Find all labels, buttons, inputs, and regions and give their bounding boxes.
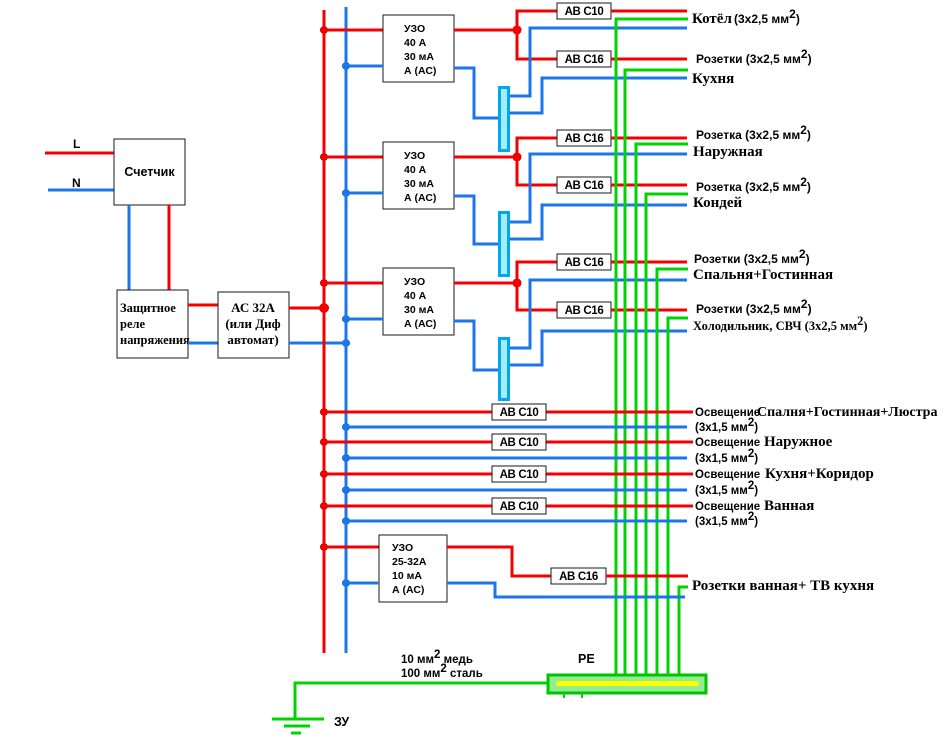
neutral splitter bar group 3 bbox=[500, 339, 509, 400]
svg-text:РЕ: РЕ bbox=[578, 652, 595, 666]
breaker АВ С10 lighting 1 bbox=[492, 404, 546, 420]
wire splitter 2 output A bbox=[510, 154, 687, 222]
wire lighting circuit 1 neutral bbox=[346, 426, 687, 429]
neutral splitter bar group 2 bbox=[500, 213, 509, 276]
wire RCD2 phase output bbox=[454, 156, 517, 159]
svg-text:Розетки (3х2,5 мм2): Розетки (3х2,5 мм2) bbox=[696, 47, 812, 66]
svg-text:10 мм2 медь: 10 мм2 медь bbox=[401, 649, 473, 666]
meter Счетчик bbox=[114, 139, 185, 205]
svg-text:АВ С10: АВ С10 bbox=[565, 6, 604, 18]
wire lighting circuit 4 phase bbox=[324, 505, 693, 508]
svg-text:(3х1,5 мм2): (3х1,5 мм2) bbox=[695, 448, 758, 465]
junction neutral bus tap group 1 bbox=[342, 62, 350, 70]
PE wire Кондей bbox=[646, 194, 688, 675]
svg-text:Кондей: Кондей bbox=[693, 195, 743, 211]
wire splitter 3 output A bbox=[510, 280, 687, 348]
svg-text:ЗУ: ЗУ bbox=[334, 715, 349, 729]
svg-text:УЗО: УЗО bbox=[404, 150, 425, 162]
breaker АВ С10 lighting 2 bbox=[492, 434, 546, 450]
svg-text:Счетчик: Счетчик bbox=[124, 165, 175, 179]
PE bar stub 1 bbox=[563, 693, 565, 698]
voltage relay Защитное реле напряжения bbox=[117, 290, 188, 358]
svg-text:АВ С10: АВ С10 bbox=[500, 501, 539, 513]
grounding conductor bbox=[295, 683, 548, 719]
PE wire Котёл bbox=[616, 19, 688, 675]
RCD УЗО 25-32А 10мА bbox=[379, 535, 447, 602]
wire lighting circuit 1 phase bbox=[324, 411, 693, 414]
svg-text:(3х1,5 мм2): (3х1,5 мм2) bbox=[695, 480, 758, 497]
junction phase bus tap group 1 bbox=[320, 26, 328, 34]
svg-text:АВ С16: АВ С16 bbox=[565, 305, 604, 317]
breaker АВ С10 lighting 4 bbox=[492, 498, 546, 514]
svg-text:Котёл: Котёл bbox=[692, 11, 732, 27]
junction RCD3 phase split bbox=[513, 279, 522, 288]
junction phase bus lighting 3 bbox=[320, 470, 328, 478]
svg-text:N: N bbox=[72, 176, 81, 190]
svg-text:(3х2,5 мм2): (3х2,5 мм2) bbox=[734, 7, 800, 26]
wire lighting circuit 4 neutral bbox=[346, 520, 687, 523]
neutral bus N vertical bbox=[345, 7, 348, 653]
svg-text:30 мА: 30 мА bbox=[404, 51, 434, 63]
PE wire Спальня+Гостинная bbox=[657, 269, 688, 675]
breaker АВ С16 group 2 lower bbox=[557, 177, 611, 193]
wire relay to AC32 neutral bbox=[188, 342, 218, 345]
junction RCD1 phase split bbox=[513, 26, 522, 35]
wire phase bus to RCD3 bbox=[324, 282, 383, 285]
wire phase bus to RCD1 bbox=[324, 29, 383, 32]
wire phase bus to RCD2 bbox=[324, 156, 383, 159]
wire splitter 3 output B bbox=[510, 331, 687, 365]
wire RCD3 phase output bbox=[454, 282, 517, 285]
svg-text:АВ С16: АВ С16 bbox=[559, 571, 598, 583]
svg-text:25-32А: 25-32А bbox=[392, 556, 427, 568]
breaker АВ С16 group 3 upper bbox=[557, 254, 611, 270]
svg-text:Кухня+Коридор: Кухня+Коридор bbox=[765, 466, 874, 482]
breaker АВ С10 group 1 upper bbox=[557, 3, 611, 19]
svg-text:30 мА: 30 мА bbox=[404, 178, 434, 190]
svg-text:30 мА: 30 мА bbox=[404, 304, 434, 316]
wire RCD1 phase output bbox=[454, 29, 517, 32]
svg-text:А (АС): А (АС) bbox=[404, 192, 436, 204]
svg-text:АВ С16: АВ С16 bbox=[565, 257, 604, 269]
wire upper breaker 3 output bbox=[611, 261, 687, 264]
PE wire Холодильник СВЧ bbox=[668, 318, 688, 675]
svg-text:Спальня+Гостинная: Спальня+Гостинная bbox=[693, 267, 833, 283]
svg-text:Розетки (3х2,5 мм2): Розетки (3х2,5 мм2) bbox=[696, 297, 812, 316]
junction neutral bus lighting 4 bbox=[342, 517, 350, 525]
wire neutral bus to RCD3 bbox=[346, 318, 383, 321]
svg-text:АВ С16: АВ С16 bbox=[565, 180, 604, 192]
neutral splitter bar group 1 bbox=[500, 88, 509, 151]
junction AC32 neutral bus bbox=[342, 339, 350, 347]
junction neutral bus tap group 3 bbox=[342, 315, 350, 323]
svg-text:АВ С10: АВ С10 bbox=[500, 407, 539, 419]
wire RCD2 neutral output to splitter bbox=[454, 196, 498, 244]
svg-text:АВ С10: АВ С10 bbox=[500, 469, 539, 481]
svg-text:Кухня: Кухня bbox=[692, 71, 734, 87]
PE bar stub 2 bbox=[581, 693, 583, 698]
svg-text:УЗО: УЗО bbox=[404, 23, 425, 35]
junction phase bus lighting 4 bbox=[320, 502, 328, 510]
svg-text:реле: реле bbox=[120, 317, 146, 331]
junction neutral bus tap group 2 bbox=[342, 189, 350, 197]
junction phase bus tap group 3 bbox=[320, 279, 328, 287]
RCD УЗО 40А 30мА group 1 bbox=[383, 15, 454, 82]
wire neutral bus to RCD2 bbox=[346, 192, 383, 195]
svg-text:40 А: 40 А bbox=[404, 164, 427, 176]
wire splitter 2 output B bbox=[510, 205, 687, 239]
svg-text:Наружная: Наружная bbox=[693, 144, 763, 160]
wire bathroom neutral output bbox=[447, 583, 685, 597]
wire phase bus to bathroom RCD bbox=[324, 546, 379, 549]
wire meter to relay neutral bbox=[128, 205, 131, 290]
wire AC32 to neutral bus bbox=[289, 342, 346, 345]
svg-text:А (АС): А (АС) bbox=[404, 65, 436, 77]
PE wire Наружная bbox=[636, 144, 688, 675]
svg-text:Холодильник, СВЧ (3х2,5 мм2): Холодильник, СВЧ (3х2,5 мм2) bbox=[693, 314, 868, 333]
wire lighting circuit 2 neutral bbox=[346, 457, 687, 460]
wire upper breaker 1 output bbox=[611, 10, 687, 13]
junction neutral bus tap bathroom RCD bbox=[342, 579, 350, 587]
wire lighting circuit 3 neutral bbox=[346, 489, 687, 492]
svg-text:(или Диф: (или Диф bbox=[225, 316, 280, 331]
junction phase bus tap bathroom RCD bbox=[320, 543, 328, 551]
svg-text:АВ С16: АВ С16 bbox=[565, 54, 604, 66]
breaker АВ С16 group 2 upper bbox=[557, 130, 611, 146]
wire RCD3 split to upper breaker bbox=[517, 262, 557, 283]
wire L phase input bbox=[45, 152, 114, 155]
svg-text:АС 32А: АС 32А bbox=[231, 300, 275, 315]
phase bus L vertical bbox=[323, 10, 326, 653]
svg-text:40 А: 40 А bbox=[404, 37, 427, 49]
svg-text:Розетки ванная+ ТВ кухня: Розетки ванная+ ТВ кухня bbox=[692, 578, 874, 594]
svg-text:Розетка (3х2,5 мм2): Розетка (3х2,5 мм2) bbox=[696, 123, 811, 142]
wire relay to AC32 phase bbox=[188, 304, 218, 307]
breaker АВ С16 bathroom bbox=[551, 568, 606, 584]
wire lighting circuit 2 phase bbox=[324, 441, 693, 444]
svg-text:Спалня+Гостинная+Люстра: Спалня+Гостинная+Люстра bbox=[757, 405, 937, 420]
RCD УЗО 40А 30мА group 2 bbox=[383, 142, 454, 209]
svg-text:напряжения: напряжения bbox=[120, 333, 190, 347]
junction neutral bus lighting 1 bbox=[342, 423, 350, 431]
svg-text:Наружное: Наружное bbox=[764, 434, 833, 450]
wire meter to relay phase bbox=[168, 205, 171, 290]
wire RCD3 neutral output to splitter bbox=[454, 321, 498, 370]
PE wire Розетки ванная bbox=[679, 587, 688, 675]
earth electrode bar 2 bbox=[284, 725, 310, 728]
junction phase bus tap group 2 bbox=[320, 153, 328, 161]
svg-text:АВ С10: АВ С10 bbox=[500, 437, 539, 449]
junction phase bus lighting 2 bbox=[320, 438, 328, 446]
wire AC32 to phase bus bbox=[289, 307, 324, 310]
earth electrode bar 1 bbox=[272, 718, 324, 721]
junction neutral bus lighting 2 bbox=[342, 454, 350, 462]
junction neutral bus lighting 3 bbox=[342, 486, 350, 494]
junction AC32 phase bus bbox=[319, 303, 329, 313]
svg-text:40 А: 40 А bbox=[404, 290, 427, 302]
wire bathroom breaker output bbox=[606, 575, 688, 578]
wire neutral bus to RCD1 bbox=[346, 65, 383, 68]
svg-text:Розетки (3х2,5 мм2): Розетки (3х2,5 мм2) bbox=[694, 247, 810, 266]
junction phase bus lighting 1 bbox=[320, 408, 328, 416]
wire lower breaker 2 output bbox=[611, 184, 687, 187]
junction RCD2 phase split bbox=[513, 153, 522, 162]
PE busbar bbox=[548, 675, 706, 693]
svg-text:УЗО: УЗО bbox=[404, 276, 425, 288]
svg-text:А (АС): А (АС) bbox=[404, 318, 436, 330]
wire N neutral input bbox=[48, 189, 114, 192]
wire RCD1 split to lower breaker bbox=[517, 30, 557, 59]
svg-text:10 мА: 10 мА bbox=[392, 570, 422, 582]
svg-text:УЗО: УЗО bbox=[392, 542, 413, 554]
svg-text:Розетка (3х2,5 мм2): Розетка (3х2,5 мм2) bbox=[696, 175, 811, 194]
wire lower breaker 1 output bbox=[611, 58, 687, 61]
svg-text:(3х1,5 мм2): (3х1,5 мм2) bbox=[695, 417, 758, 434]
svg-text:Ванная: Ванная bbox=[764, 498, 814, 514]
breaker АВ С16 group 3 lower bbox=[557, 302, 611, 318]
svg-text:L: L bbox=[73, 137, 80, 151]
wire RCD2 split to lower breaker bbox=[517, 157, 557, 185]
RCD УЗО 40А 30мА group 3 bbox=[383, 268, 454, 335]
svg-text:А (АС): А (АС) bbox=[392, 584, 424, 596]
svg-text:(3х1,5 мм2): (3х1,5 мм2) bbox=[695, 511, 758, 528]
wire RCD2 split to upper breaker bbox=[517, 138, 557, 157]
breaker АВ С10 lighting 3 bbox=[492, 466, 546, 482]
wire RCD3 split to lower breaker bbox=[517, 283, 557, 310]
breaker АС 32А (или Диф автомат) bbox=[218, 292, 289, 358]
svg-text:Защитное: Защитное bbox=[120, 301, 176, 315]
svg-text:АВ С16: АВ С16 bbox=[565, 133, 604, 145]
wire splitter 1 output A bbox=[510, 28, 687, 96]
wire splitter 1 output B bbox=[510, 78, 687, 113]
breaker АВ С16 group 1 lower bbox=[557, 51, 611, 67]
wire RCD1 split to upper breaker bbox=[517, 11, 557, 30]
wire bathroom RCD phase output bbox=[447, 547, 551, 576]
PE wire Кухня bbox=[625, 70, 688, 675]
wire neutral bus to bathroom RCD bbox=[346, 582, 379, 585]
wire RCD1 neutral output to splitter bbox=[454, 68, 498, 118]
earth electrode bar 3 bbox=[291, 732, 301, 735]
wire upper breaker 2 output bbox=[611, 137, 687, 140]
wire lighting circuit 3 phase bbox=[324, 473, 693, 476]
svg-text:автомат): автомат) bbox=[227, 332, 278, 347]
wire lower breaker 3 output bbox=[611, 309, 687, 312]
